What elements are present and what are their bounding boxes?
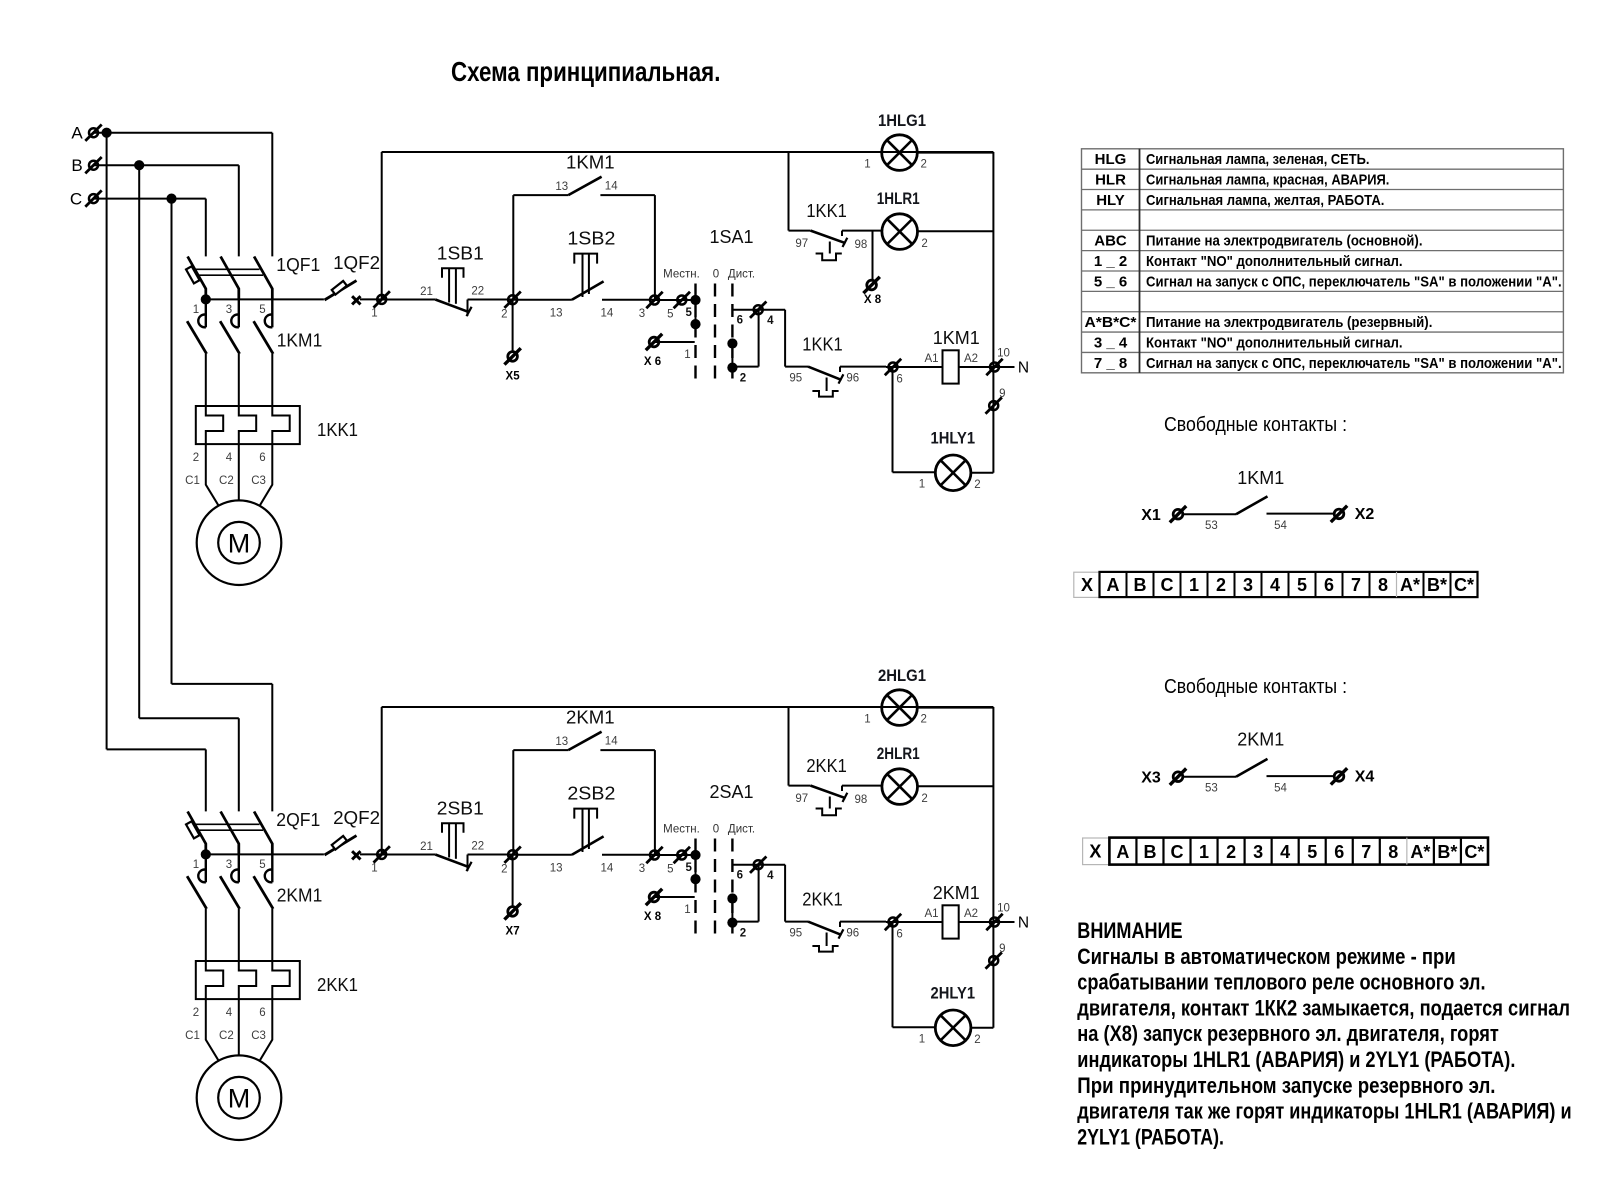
svg-text:14: 14 xyxy=(605,736,618,748)
terminal X4 xyxy=(1331,768,1347,784)
node C input terminal xyxy=(85,190,101,206)
svg-text:2KK1: 2KK1 xyxy=(806,755,847,776)
svg-text:6: 6 xyxy=(896,373,902,385)
svg-text:C2: C2 xyxy=(219,475,234,487)
svg-text:21: 21 xyxy=(420,841,433,853)
svg-text:0: 0 xyxy=(713,268,719,280)
pushbutton 2SB2 (NO) xyxy=(572,836,604,854)
svg-text:5: 5 xyxy=(1307,842,1317,862)
svg-text:2: 2 xyxy=(974,479,980,491)
svg-text:14: 14 xyxy=(601,308,614,320)
svg-text:2: 2 xyxy=(193,452,199,464)
1SA1 position line 0 xyxy=(714,284,716,381)
signal lamp 1HLY1 xyxy=(935,455,971,491)
junction 2QF1 pole 1 output xyxy=(201,849,211,859)
terminal X5 xyxy=(504,348,520,364)
svg-text:9: 9 xyxy=(999,943,1005,955)
svg-text:2KK1: 2KK1 xyxy=(317,974,358,995)
terminal 1 (2) xyxy=(360,853,382,855)
svg-text:X 8: X 8 xyxy=(644,911,662,923)
free contact 1KM1 53-54 xyxy=(1183,513,1236,515)
wire phase A bus xyxy=(94,132,273,134)
svg-text:2KM1: 2KM1 xyxy=(933,882,980,903)
wire 1QF1 output line xyxy=(206,298,324,300)
svg-text:A: A xyxy=(71,124,83,143)
wire to terminal 5 xyxy=(655,299,696,301)
signal lamp 2HLR1 xyxy=(882,769,918,805)
wire 2QF1 output line xyxy=(206,853,324,855)
1KK1 97-98 thermal release symbol xyxy=(829,242,831,254)
terminal 3 (2) xyxy=(646,847,662,863)
contactor 2KM1 main contacts xyxy=(198,870,206,883)
svg-text:2: 2 xyxy=(1216,575,1226,595)
wire 1QF1 pole 3 drop from A bus xyxy=(271,133,273,257)
svg-text:3: 3 xyxy=(226,859,232,871)
terminal 2 (1) xyxy=(504,292,520,308)
terminal 5 (1) xyxy=(674,292,690,308)
circuit breaker 1QF1 xyxy=(188,257,206,300)
svg-text:Дист.: Дист. xyxy=(728,823,755,835)
junction B xyxy=(134,160,144,170)
svg-text:Контакт "NO" дополнительный си: Контакт "NO" дополнительный сигнал. xyxy=(1146,253,1403,270)
svg-text:3: 3 xyxy=(1253,842,1263,862)
svg-text:X: X xyxy=(1081,575,1093,595)
wire terminal2 to 2SB2 xyxy=(513,854,572,856)
terminal 9 (1) xyxy=(986,397,1002,413)
svg-text:двигателя так же горят индикат: двигателя так же горят индикаторы 1HLR1 … xyxy=(1077,1099,1571,1124)
wire phase C feeder down xyxy=(171,199,173,684)
svg-text:0: 0 xyxy=(713,823,719,835)
1SA1 position line Дист. xyxy=(731,284,733,381)
svg-text:A1: A1 xyxy=(924,908,938,920)
svg-text:9: 9 xyxy=(999,388,1005,400)
svg-text:10: 10 xyxy=(997,348,1010,360)
1KK1 heater element at pole 3 xyxy=(272,406,289,444)
terminal X1 xyxy=(1170,506,1186,522)
svg-text:HLR: HLR xyxy=(1095,172,1126,189)
junction 1QF1 pole 1 output xyxy=(201,294,211,304)
svg-text:6: 6 xyxy=(737,870,743,882)
svg-text:N: N xyxy=(1018,915,1029,932)
wire 2QF1 pole 2 drop xyxy=(238,718,240,811)
wire drop to 2KK1 97 xyxy=(788,707,790,786)
svg-text:2: 2 xyxy=(921,793,927,805)
1SA1 moving contact Дист. xyxy=(727,338,737,348)
svg-text:1: 1 xyxy=(684,904,690,916)
svg-text:2SB1: 2SB1 xyxy=(437,797,484,818)
2KK1 heater element at pole 3 xyxy=(272,961,289,999)
svg-text:A*: A* xyxy=(1410,842,1430,862)
terminal 6 (2) xyxy=(885,914,901,930)
svg-text:C3: C3 xyxy=(251,475,266,487)
wire drop to X5 xyxy=(512,300,514,352)
node B input terminal xyxy=(85,157,101,173)
svg-text:Контакт "NO" дополнительный си: Контакт "NO" дополнительный сигнал. xyxy=(1146,334,1403,351)
signal lamp 2HLG1 xyxy=(382,706,881,708)
svg-text:98: 98 xyxy=(855,239,868,251)
svg-text:1: 1 xyxy=(371,863,377,875)
svg-text:Дист.: Дист. xyxy=(728,268,755,280)
signal lamp 1HLG1 xyxy=(382,151,881,153)
svg-text:1SA1: 1SA1 xyxy=(710,226,754,247)
svg-text:1KM1: 1KM1 xyxy=(277,330,323,351)
terminal X2 xyxy=(1331,506,1347,522)
svg-text:двигателя, контакт 1КК2 замыка: двигателя, контакт 1КК2 замыкается, пода… xyxy=(1077,995,1570,1020)
svg-text:4: 4 xyxy=(767,870,774,882)
svg-text:Сигнал на запуск с ОПС, перекл: Сигнал на запуск с ОПС, переключатель "S… xyxy=(1146,273,1562,290)
2SA1 moving contact Местн. xyxy=(695,855,697,879)
terminal X 8 xyxy=(646,889,662,905)
svg-text:54: 54 xyxy=(1274,520,1287,532)
svg-text:X 8: X 8 xyxy=(864,294,882,306)
svg-text:2HLY1: 2HLY1 xyxy=(931,985,976,1003)
contactor 1KM1 main contacts xyxy=(198,315,206,328)
svg-text:8: 8 xyxy=(1378,575,1388,595)
wire drop to X7 xyxy=(512,855,514,907)
1SA1 moving contact Местн. xyxy=(695,300,697,324)
terminal 6 (1) xyxy=(885,359,901,375)
svg-text:Питание на электродвигатель (р: Питание на электродвигатель (резервный). xyxy=(1146,314,1432,331)
svg-text:Сигнальная лампа, желтая, РАБО: Сигнальная лампа, желтая, РАБОТА. xyxy=(1146,192,1384,209)
terminal 3 (1) xyxy=(646,292,662,308)
svg-text:ВНИМАНИЕ: ВНИМАНИЕ xyxy=(1077,918,1182,943)
2SB1 mushroom actuator xyxy=(442,823,464,832)
svg-text:X1: X1 xyxy=(1141,507,1161,524)
svg-text:2QF1: 2QF1 xyxy=(276,809,320,830)
svg-text:1: 1 xyxy=(864,158,870,170)
svg-text:Местн.: Местн. xyxy=(663,268,700,280)
node A input terminal xyxy=(85,125,101,141)
auxiliary contact 1KM1 13-14 xyxy=(513,194,568,196)
svg-text:Схема принципиальная.: Схема принципиальная. xyxy=(451,56,720,87)
svg-text:13: 13 xyxy=(555,181,568,193)
svg-text:1: 1 xyxy=(919,1034,925,1046)
terminal X8 xyxy=(863,277,879,293)
wires 2KK1 to motor xyxy=(206,999,219,1061)
wire 2HLR1 to bus xyxy=(918,785,993,787)
svg-text:X5: X5 xyxy=(506,370,521,382)
svg-text:2: 2 xyxy=(1226,842,1236,862)
svg-text:4: 4 xyxy=(1270,575,1280,595)
svg-text:2QF2: 2QF2 xyxy=(333,807,380,828)
wire 2HLY1 to bus xyxy=(972,1027,994,1029)
svg-text:2: 2 xyxy=(974,1034,980,1046)
svg-text:6: 6 xyxy=(1324,575,1334,595)
svg-text:96: 96 xyxy=(846,927,859,939)
1KK1 heater element at pole 2 xyxy=(239,406,256,444)
svg-text:10: 10 xyxy=(997,903,1010,915)
svg-text:1KK1: 1KK1 xyxy=(802,334,843,355)
svg-text:B: B xyxy=(1143,842,1156,862)
svg-text:5: 5 xyxy=(667,864,673,876)
svg-text:1SB2: 1SB2 xyxy=(567,228,615,249)
svg-text:2: 2 xyxy=(920,713,926,725)
svg-text:6: 6 xyxy=(737,315,743,327)
thermal relay contact 2KK1 95-96 xyxy=(808,922,842,935)
svg-text:5: 5 xyxy=(1297,575,1307,595)
svg-text:7: 7 xyxy=(1361,842,1371,862)
svg-text:96: 96 xyxy=(846,372,859,384)
2QF1 release box on pole 1 xyxy=(186,821,200,838)
auxiliary contact 2KM1 13-14 xyxy=(513,749,568,751)
svg-text:A*: A* xyxy=(1400,575,1420,595)
svg-text:HLG: HLG xyxy=(1095,151,1127,168)
auxiliary contact 2KM1 13-14 risers xyxy=(512,750,514,854)
svg-text:M: M xyxy=(228,528,251,558)
svg-text:C: C xyxy=(1171,842,1184,862)
svg-text:C*: C* xyxy=(1454,575,1474,595)
wire terminal2 to 1SB2 xyxy=(513,299,572,301)
svg-text:C3: C3 xyxy=(251,1030,266,1042)
svg-text:2KM1: 2KM1 xyxy=(1237,729,1284,750)
svg-text:1QF1: 1QF1 xyxy=(276,254,320,275)
2SB2 mushroom actuator xyxy=(574,809,597,819)
svg-text:1KM1: 1KM1 xyxy=(933,327,980,348)
svg-text:B: B xyxy=(71,156,82,175)
svg-text:X 6: X 6 xyxy=(644,356,661,368)
svg-text:1: 1 xyxy=(193,304,199,316)
svg-text:C2: C2 xyxy=(219,1030,234,1042)
thermal relay contact 2KK1 97-98 xyxy=(789,785,811,787)
svg-text:X3: X3 xyxy=(1141,770,1161,787)
svg-text:22: 22 xyxy=(471,841,484,853)
wire node 4 to 1KK1 95 xyxy=(784,310,786,367)
svg-text:Местн.: Местн. xyxy=(663,823,700,835)
svg-text:1: 1 xyxy=(684,349,690,361)
svg-text:13: 13 xyxy=(555,736,568,748)
node 6 stub wire xyxy=(732,864,785,866)
svg-text:5 _ 6: 5 _ 6 xyxy=(1094,273,1127,290)
svg-text:3: 3 xyxy=(639,863,645,875)
motor M2 xyxy=(197,1055,282,1140)
wire top lamp rail (1) xyxy=(382,151,994,153)
svg-text:2KM1: 2KM1 xyxy=(277,885,323,906)
svg-text:Свободные контакты :: Свободные контакты : xyxy=(1164,676,1347,698)
wire drop to 1KK1 97 xyxy=(788,152,790,231)
svg-text:5: 5 xyxy=(685,862,692,874)
svg-text:C: C xyxy=(70,190,82,209)
svg-text:13: 13 xyxy=(550,863,563,875)
wire 1QF1 pole 2 drop from B bus xyxy=(238,165,240,256)
wires 1KK1 to motor xyxy=(206,444,219,506)
svg-text:B*: B* xyxy=(1437,842,1457,862)
svg-text:индикаторы 1HLR1 (АВАРИЯ) и 2Y: индикаторы 1HLR1 (АВАРИЯ) и 2YLY1 (РАБОТ… xyxy=(1077,1047,1515,1072)
contactor coil 2KM1 xyxy=(943,905,959,938)
wire 1HLR1 to bus xyxy=(918,230,993,232)
terminal strip X (lower) xyxy=(1083,838,1110,865)
svg-text:53: 53 xyxy=(1205,520,1218,532)
svg-text:2: 2 xyxy=(193,1007,199,1019)
svg-text:1KM1: 1KM1 xyxy=(566,151,615,172)
wire phase B to 2QF1 pole 2 xyxy=(139,717,239,719)
wire terminal 6 to coil A1 xyxy=(886,366,943,368)
svg-text:1QF2: 1QF2 xyxy=(333,252,380,273)
svg-text:5: 5 xyxy=(259,304,265,316)
1QF1 linkage bar xyxy=(195,268,260,270)
svg-text:1: 1 xyxy=(371,308,377,320)
1KK1 heater element at pole 1 xyxy=(206,406,223,444)
thermal overload relay 2KK1 heater box xyxy=(196,961,300,999)
wire phase B bus xyxy=(94,164,239,166)
svg-text:Сигнал на запуск с ОПС, перекл: Сигнал на запуск с ОПС, переключатель "S… xyxy=(1146,355,1562,372)
wire phase B feeder down xyxy=(138,165,140,718)
thermal relay contact 1KK1 95-96 xyxy=(808,367,842,380)
svg-text:ABC: ABC xyxy=(1094,233,1127,250)
2SA1 position line Дист. xyxy=(731,839,733,936)
wire 2QF1 pole 3 drop xyxy=(271,684,273,812)
svg-text:2: 2 xyxy=(740,928,746,940)
svg-text:C1: C1 xyxy=(185,475,200,487)
svg-text:1KM1: 1KM1 xyxy=(1237,467,1284,488)
svg-text:14: 14 xyxy=(605,181,618,193)
svg-text:1HLR1: 1HLR1 xyxy=(877,190,920,208)
svg-text:Сигналы в автоматическом режим: Сигналы в автоматическом режиме - при xyxy=(1077,944,1455,969)
svg-text:7 _ 8: 7 _ 8 xyxy=(1094,355,1127,372)
svg-text:1: 1 xyxy=(1189,575,1199,595)
pushbutton 2SB1 (NC) xyxy=(435,855,469,868)
svg-text:53: 53 xyxy=(1205,783,1218,795)
svg-text:2KM1: 2KM1 xyxy=(566,706,615,727)
svg-text:A2: A2 xyxy=(964,353,978,365)
wire riser to lamp rail (2) xyxy=(381,707,383,854)
wire coil A2 to N xyxy=(959,366,1015,368)
svg-text:14: 14 xyxy=(601,863,614,875)
1SA1 position line Местн. xyxy=(694,284,696,381)
svg-text:M: M xyxy=(228,1083,251,1113)
junction node 5 on Местн. line xyxy=(690,295,700,305)
wire terminal1 to 2SB1 xyxy=(382,854,436,856)
wire 2HLG1 to bus xyxy=(918,707,994,709)
thermal relay contact 1KK1 97-98 xyxy=(789,230,811,232)
wire drop to X8 xyxy=(872,231,874,281)
wire right bus (1) xyxy=(992,152,994,473)
svg-text:1: 1 xyxy=(193,859,199,871)
svg-text:При принудительном запуске рез: При принудительном запуске резервного эл… xyxy=(1077,1073,1495,1098)
wire 1HLY1 to bus xyxy=(972,472,994,474)
svg-text:97: 97 xyxy=(795,793,808,805)
svg-text:C*: C* xyxy=(1464,842,1484,862)
svg-text:Сигнальная лампа, зеленая, СЕТ: Сигнальная лампа, зеленая, СЕТЬ. xyxy=(1146,151,1370,168)
svg-text:C1: C1 xyxy=(185,1030,200,1042)
junction node 5 on Местн. line xyxy=(690,850,700,860)
2KK1 heater element at pole 2 xyxy=(239,961,256,999)
svg-text:4: 4 xyxy=(767,315,774,327)
circuit breaker 1QF2 xyxy=(325,281,357,300)
wire X 6 stub to Местн. line xyxy=(654,341,695,343)
svg-text:Сигнальная лампа, красная, АВА: Сигнальная лампа, красная, АВАРИЯ. xyxy=(1146,172,1389,189)
wire 1HLG1 to bus xyxy=(918,152,994,154)
svg-text:2: 2 xyxy=(501,864,507,876)
svg-text:A1: A1 xyxy=(924,353,938,365)
svg-text:4: 4 xyxy=(226,1007,233,1019)
wire phase C to 2QF1 pole 3 xyxy=(172,683,273,685)
svg-text:A*B*C*: A*B*C* xyxy=(1085,314,1137,331)
svg-text:A: A xyxy=(1116,842,1129,862)
wire terminal 6 drop to 1HLY1 xyxy=(892,367,894,472)
svg-text:5: 5 xyxy=(667,309,673,321)
svg-text:X2: X2 xyxy=(1355,506,1375,523)
wire terminal1 to 1SB1 xyxy=(382,299,436,301)
1SB2 mushroom actuator xyxy=(574,254,597,264)
2KK1 97-98 thermal release symbol xyxy=(829,797,831,809)
2SA1 moving contact Дист. xyxy=(727,893,737,903)
svg-text:X7: X7 xyxy=(506,925,520,937)
pushbutton 1SB1 (NC) xyxy=(435,300,469,313)
wire top lamp rail (2) xyxy=(382,706,994,708)
svg-text:X4: X4 xyxy=(1355,769,1375,786)
node 6 stub wire xyxy=(732,309,785,311)
svg-text:C: C xyxy=(1161,575,1174,595)
svg-text:4: 4 xyxy=(226,452,233,464)
legend table column divider xyxy=(1139,149,1141,373)
signal lamp 2HLY1 xyxy=(935,1010,971,1046)
wire terminal 4 down to node 2 xyxy=(758,865,760,922)
svg-text:2YLY1 (РАБОТА).: 2YLY1 (РАБОТА). xyxy=(1077,1124,1224,1149)
wire right bus (2) xyxy=(992,707,994,1028)
1QF2 breaker cross mark xyxy=(352,296,360,304)
wire to terminal 5 xyxy=(655,854,696,856)
pushbutton 1SB2 (NO) xyxy=(572,281,604,299)
svg-text:6: 6 xyxy=(896,928,902,940)
1KK1 95-96 thermal release symbol xyxy=(826,378,828,392)
terminal 9 (2) xyxy=(986,952,1002,968)
svg-text:3: 3 xyxy=(639,308,645,320)
svg-text:2KK1: 2KK1 xyxy=(802,889,843,910)
wire coil A2 to N xyxy=(959,921,1015,923)
wire terminal 6 to coil A1 xyxy=(886,921,943,923)
wire phase C bus xyxy=(94,198,206,200)
terminal X 6 xyxy=(646,334,662,350)
junction A xyxy=(102,128,112,138)
free contact 2KM1 53-54 xyxy=(1183,776,1236,778)
svg-text:A2: A2 xyxy=(964,908,978,920)
2KK1 heater element at pole 1 xyxy=(206,961,223,999)
terminal 10 / N (1) xyxy=(986,359,1002,375)
1QF1 release box on pole 1 xyxy=(186,266,200,283)
terminal 4 (2) xyxy=(750,857,766,873)
auxiliary contact 1KM1 13-14 risers xyxy=(512,195,514,299)
svg-text:1SB1: 1SB1 xyxy=(437,242,484,263)
circuit breaker 2QF1 xyxy=(188,812,206,855)
2QF2 breaker cross mark xyxy=(352,851,360,859)
svg-text:95: 95 xyxy=(789,927,802,939)
legend table row lines xyxy=(1082,168,1564,170)
signal lamp 1HLR1 xyxy=(882,214,918,250)
svg-text:5: 5 xyxy=(259,859,265,871)
terminal X3 xyxy=(1170,769,1186,785)
circuit breaker 2QF2 xyxy=(325,836,357,855)
svg-text:1HLY1: 1HLY1 xyxy=(931,430,976,448)
svg-text:6: 6 xyxy=(259,1007,265,1019)
2SA1 position line 0 xyxy=(714,839,716,936)
svg-text:2HLG1: 2HLG1 xyxy=(878,667,926,685)
svg-text:2HLR1: 2HLR1 xyxy=(877,745,920,763)
svg-text:Питание на электродвигатель (о: Питание на электродвигатель (основной). xyxy=(1146,233,1423,250)
svg-text:2: 2 xyxy=(921,238,927,250)
1SB1 mushroom actuator xyxy=(442,268,464,277)
wire phase A feeder down xyxy=(106,133,108,750)
svg-text:3: 3 xyxy=(1243,575,1253,595)
2QF1 linkage bar xyxy=(195,823,260,825)
terminal strip X (upper) xyxy=(1074,572,1100,597)
wire terminal 4 down to node 2 xyxy=(758,310,760,367)
wire terminal 6 drop to 2HLY1 xyxy=(892,922,894,1027)
2SA1 position line Местн. xyxy=(694,839,696,936)
svg-text:2: 2 xyxy=(920,158,926,170)
svg-text:98: 98 xyxy=(855,794,868,806)
svg-text:6: 6 xyxy=(1334,842,1344,862)
terminal 4 (1) xyxy=(750,302,766,318)
